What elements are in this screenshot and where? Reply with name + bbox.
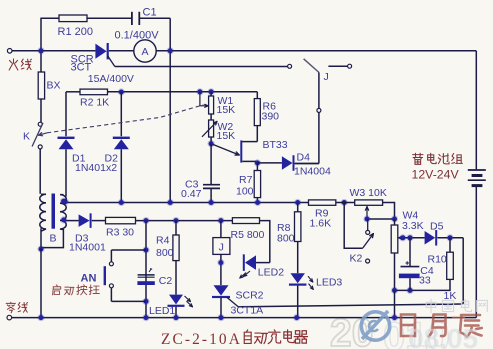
svg-text:1N401x2: 1N401x2 bbox=[75, 162, 117, 174]
svg-text:33: 33 bbox=[419, 274, 431, 286]
svg-text:W3 10K: W3 10K bbox=[350, 187, 387, 199]
svg-text:ZC-2-10A: ZC-2-10A bbox=[161, 331, 242, 348]
svg-text:R3 30: R3 30 bbox=[106, 226, 134, 238]
svg-text:0.47: 0.47 bbox=[181, 188, 202, 200]
svg-text:1N4001: 1N4001 bbox=[69, 242, 106, 254]
svg-text:D5: D5 bbox=[430, 220, 444, 232]
svg-text:LED2: LED2 bbox=[258, 266, 284, 278]
svg-text:1N4004: 1N4004 bbox=[294, 165, 331, 177]
svg-text:R7: R7 bbox=[239, 174, 253, 186]
svg-text:R5 800: R5 800 bbox=[231, 229, 265, 241]
svg-text:100: 100 bbox=[236, 185, 254, 197]
svg-text:C1: C1 bbox=[143, 7, 157, 19]
svg-text:3CT: 3CT bbox=[71, 62, 92, 74]
svg-text:800: 800 bbox=[277, 232, 295, 244]
svg-text:3CT1A: 3CT1A bbox=[231, 304, 264, 316]
svg-text:LED3: LED3 bbox=[316, 276, 342, 288]
svg-text:C2: C2 bbox=[159, 275, 173, 287]
svg-text:R4: R4 bbox=[156, 234, 170, 246]
svg-text:J: J bbox=[219, 241, 224, 253]
svg-text:800: 800 bbox=[156, 247, 174, 259]
svg-text:BT33: BT33 bbox=[263, 139, 288, 151]
svg-text:15K: 15K bbox=[217, 130, 236, 142]
svg-text:B: B bbox=[50, 233, 57, 245]
svg-text:R10: R10 bbox=[428, 253, 447, 265]
svg-text:15K: 15K bbox=[217, 104, 236, 116]
svg-text:1.6K: 1.6K bbox=[310, 217, 332, 229]
svg-text:15A/400V: 15A/400V bbox=[88, 73, 134, 85]
svg-text:K: K bbox=[23, 131, 30, 143]
svg-text:J: J bbox=[324, 71, 329, 83]
svg-text:K2: K2 bbox=[350, 252, 363, 264]
svg-text:R2 1K: R2 1K bbox=[80, 97, 109, 109]
svg-text:D4: D4 bbox=[297, 151, 311, 163]
svg-text:0.1/400V: 0.1/400V bbox=[115, 30, 160, 42]
svg-text:A: A bbox=[141, 46, 148, 58]
svg-text:R1 200: R1 200 bbox=[58, 26, 93, 38]
svg-text:390: 390 bbox=[262, 111, 280, 123]
svg-text:3.3K: 3.3K bbox=[402, 220, 424, 232]
svg-text:SCR2: SCR2 bbox=[236, 289, 264, 301]
svg-text:12V-24V: 12V-24V bbox=[412, 168, 460, 182]
svg-text:LED1: LED1 bbox=[149, 305, 175, 317]
svg-text:08.05: 08.05 bbox=[408, 323, 478, 349]
svg-text:BX: BX bbox=[47, 80, 61, 92]
svg-text:AN: AN bbox=[81, 273, 97, 285]
